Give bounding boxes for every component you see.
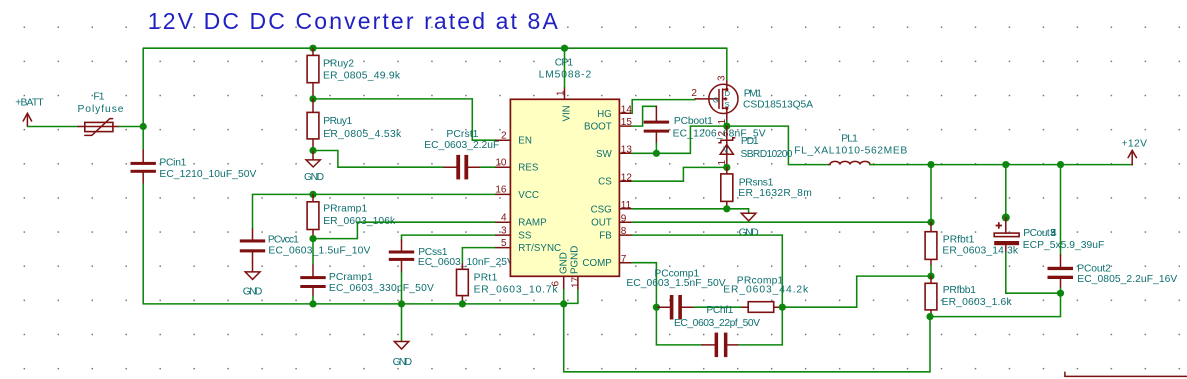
junction PCout5 pins [1002, 214, 1010, 222]
svg-text:ER_0603_1.6k: ER_0603_1.6k [942, 297, 1013, 308]
svg-text:+BATT: +BATT [15, 98, 44, 109]
svg-text:8: 8 [621, 226, 627, 237]
wire top rail [143, 47, 727, 49]
ground bottom center [393, 304, 413, 368]
capacitor PCvcc1 [240, 194, 371, 263]
svg-text:VIN: VIN [561, 105, 572, 121]
pin 5 RT/SYNC [496, 238, 561, 254]
wire SS net [402, 234, 496, 236]
svg-text:PCvcc1: PCvcc1 [268, 234, 299, 245]
svg-text:3: 3 [717, 75, 728, 81]
junction PRt1 bottom [459, 300, 466, 307]
svg-text:4: 4 [1051, 228, 1057, 239]
svg-text:4: 4 [501, 213, 507, 224]
wire output rail [870, 164, 1132, 166]
svg-text:3: 3 [501, 225, 507, 236]
svg-text:10: 10 [495, 158, 507, 169]
wire PCrst1 to RES pin [481, 166, 496, 168]
svg-text:PCramp1: PCramp1 [329, 272, 373, 283]
diode PD1 [717, 126, 793, 167]
svg-text:CS: CS [598, 177, 612, 188]
svg-text:RT/SYNC: RT/SYNC [518, 243, 561, 254]
resistor PRt1 [457, 248, 559, 304]
svg-text:GND: GND [559, 252, 570, 274]
capacitor PCrst1 [424, 129, 499, 179]
svg-text:6: 6 [551, 281, 562, 287]
svg-text:FL_XAL1010-562MEB: FL_XAL1010-562MEB [794, 145, 907, 156]
pin 16 VCC [495, 185, 539, 201]
svg-text:PCout2: PCout2 [1077, 263, 1111, 274]
pin 13 SW [596, 144, 632, 159]
junction PCramp1 bottom [309, 300, 316, 307]
svg-text:Polyfuse: Polyfuse [78, 104, 124, 115]
svg-text:GND: GND [739, 228, 759, 239]
svg-text:EC_0603_1.5uF_10V: EC_0603_1.5uF_10V [268, 246, 370, 257]
wire FB tap to divider [782, 276, 931, 307]
svg-text:EC_0603_2.2uF: EC_0603_2.2uF [424, 140, 499, 151]
resistor PRsns1 [721, 167, 812, 208]
svg-text:RAMP: RAMP [518, 218, 547, 229]
svg-text:2: 2 [691, 88, 697, 99]
svg-text:1: 1 [556, 90, 567, 96]
svg-text:VCC: VCC [518, 190, 539, 201]
junction FB divider mid [927, 273, 934, 280]
junction caps return [1057, 290, 1064, 297]
ground at sense [739, 213, 759, 238]
IC CP1 LM5088-2 [510, 57, 619, 276]
wire FB net [632, 235, 782, 307]
junction SW node [723, 123, 730, 130]
wire RT net [462, 247, 495, 249]
resistor PRfbt1 [925, 222, 1019, 276]
capacitor PCramp1 [300, 239, 434, 304]
wire SW to inductor [727, 126, 829, 165]
svg-text:COMP: COMP [582, 258, 612, 269]
svg-text:SBRD10200: SBRD10200 [741, 149, 793, 160]
capacitor PCcomp1 [626, 269, 725, 320]
capacitor PCin1 [131, 150, 257, 184]
capacitor PCss1 [389, 235, 514, 304]
wire bottom gnd rail [564, 317, 930, 372]
wire input column down to capacitor [142, 127, 144, 151]
svg-text:G: G [713, 95, 719, 104]
svg-text:PCout: PCout [1023, 228, 1050, 239]
svg-text:EN: EN [518, 136, 532, 147]
svg-text:EC_0805_2.2uF_16V: EC_0805_2.2uF_16V [1077, 274, 1177, 285]
junction SW at PCboot1 [653, 150, 660, 157]
inductor PL1 [794, 133, 907, 164]
wire fuse to input node [119, 126, 143, 128]
sheet frame corner [1065, 372, 1187, 377]
pin 2 EN [496, 131, 532, 147]
wire source to SW node [726, 121, 728, 126]
svg-text:PRramp1: PRramp1 [323, 204, 367, 215]
svg-text:12V DC DC Converter rated at 8: 12V DC DC Converter rated at 8A [148, 8, 559, 34]
junction diode anode sense top [723, 164, 730, 171]
wire COMP net [632, 263, 656, 308]
junction comp node left [653, 304, 660, 311]
svg-text:GND: GND [243, 286, 262, 297]
svg-text:EC_0603_10nF_25V: EC_0603_10nF_25V [418, 257, 514, 268]
svg-text:PCin1: PCin1 [159, 157, 186, 168]
svg-text:EC_0603_22pf_50V: EC_0603_22pf_50V [674, 318, 760, 329]
transistor PM1 [691, 75, 813, 125]
svg-text:EC_0603_330pF_50V: EC_0603_330pF_50V [329, 283, 434, 294]
pin 4 RAMP [496, 213, 547, 229]
title text [148, 8, 559, 34]
junction divider mid [309, 95, 316, 102]
capacitor PCboot1 [644, 106, 766, 153]
svg-text:PGND: PGND [570, 246, 581, 274]
svg-text:14: 14 [621, 104, 633, 115]
pin 15 BOOT [584, 117, 632, 132]
wire +BATT to fuse [27, 126, 78, 128]
wire PCout5 column top [1005, 165, 1007, 218]
wire OUT net [632, 221, 931, 223]
svg-text:PChf1: PChf1 [706, 305, 733, 316]
svg-text:9: 9 [621, 213, 627, 224]
pin 6 GND [551, 252, 570, 289]
svg-text:PRuy2: PRuy2 [323, 59, 354, 70]
svg-text:EC_0603_1.5nF_50V: EC_0603_1.5nF_50V [626, 278, 725, 289]
wire comp mid [694, 306, 742, 308]
wire top rail down to drain [726, 48, 728, 81]
wire EN net [313, 99, 496, 140]
wire input column up to top rail [142, 48, 144, 126]
svg-text:ER_0805_4.53k: ER_0805_4.53k [323, 129, 402, 140]
svg-text:PRuy1: PRuy1 [323, 116, 352, 127]
svg-text:S: S [725, 100, 730, 109]
svg-text:PL1: PL1 [841, 133, 858, 144]
svg-text:F1: F1 [93, 92, 104, 103]
svg-text:SS: SS [518, 231, 532, 242]
resistor PRcomp1 [723, 276, 809, 313]
capacitor PChf1 [656, 305, 782, 357]
wire out rail down to OUT pin wire [930, 165, 932, 223]
svg-text:PRt1: PRt1 [474, 273, 498, 284]
junction PRuy2 top [309, 45, 316, 52]
svg-text:GND: GND [304, 172, 324, 183]
fuse F1 Polyfuse [78, 92, 124, 136]
pin 11 CSG [591, 200, 633, 215]
svg-text:EC_1210_10uF_50V: EC_1210_10uF_50V [159, 169, 256, 180]
junction out rail at PCout5 [1002, 161, 1009, 168]
wire CSG net [632, 209, 748, 214]
junction PRuy1 bottom [309, 147, 316, 154]
svg-text:ER_0603_106k: ER_0603_106k [323, 216, 396, 227]
wire IC gnd pins to rail [564, 290, 578, 372]
junction out rail at PCout2 [1057, 161, 1064, 168]
wire VIN column [564, 48, 566, 87]
svg-text:CSD18513Q5A: CSD18513Q5A [743, 100, 813, 111]
svg-text:11: 11 [621, 200, 632, 211]
svg-text:5: 5 [501, 238, 507, 249]
svg-text:2: 2 [501, 131, 507, 142]
junction sense bottom [723, 205, 730, 212]
pin 8 FB [599, 226, 632, 241]
resistor PRramp1 [307, 194, 396, 238]
svg-text:ER_0603_10.7k: ER_0603_10.7k [474, 284, 559, 295]
svg-text:ER_1632R_8m: ER_1632R_8m [738, 188, 812, 199]
ground below PCvcc1 [243, 263, 262, 297]
wire RES net [313, 151, 444, 168]
wire PCin1 to gnd rail [143, 184, 564, 304]
svg-text:13: 13 [621, 144, 633, 155]
junction divider bottom [926, 313, 933, 320]
svg-text:2: 2 [717, 131, 728, 137]
wire VCC net [253, 193, 496, 195]
svg-text:RES: RES [518, 163, 539, 174]
junction OUT at divider top [927, 219, 934, 226]
svg-text:PD1: PD1 [741, 136, 759, 147]
svg-text:ER_0603_14.3k: ER_0603_14.3k [942, 245, 1018, 256]
svg-text:ER_0603_44.2k: ER_0603_44.2k [723, 285, 809, 296]
capacitor PCout2 [1048, 165, 1178, 294]
svg-text:HG: HG [597, 109, 612, 120]
svg-text:ECP_5x5.9_39uF: ECP_5x5.9_39uF [1023, 240, 1105, 251]
power flag +BATT [15, 98, 44, 127]
svg-text:7: 7 [621, 254, 627, 265]
junction out rail at divider [927, 161, 934, 168]
pin 14 HG [597, 104, 632, 119]
svg-text:15: 15 [621, 117, 633, 128]
resistor PRuy2 [307, 48, 401, 99]
svg-text:CSG: CSG [591, 204, 612, 215]
svg-text:PCrst1: PCrst1 [446, 129, 478, 140]
svg-text:SW: SW [596, 149, 613, 160]
pin 7 COMP [582, 254, 632, 269]
svg-text:17: 17 [571, 276, 582, 288]
svg-text:V: V [723, 146, 729, 155]
svg-text:FB: FB [599, 231, 612, 242]
pin 17 PGND [570, 246, 582, 290]
wire SW net [632, 126, 727, 153]
svg-text:OUT: OUT [591, 218, 612, 229]
capacitor PCout5 polarized [994, 218, 1104, 294]
junction VIN top rail [561, 45, 568, 52]
junction ramp node [309, 235, 316, 242]
resistor PRfbb1 [925, 276, 1012, 317]
resistor PRuy1 [307, 99, 402, 151]
pin 12 CS [598, 172, 632, 187]
svg-text:PRfbt1: PRfbt1 [943, 235, 975, 246]
svg-text:BOOT: BOOT [584, 122, 612, 133]
wire CS net [632, 167, 727, 181]
junction gnd rail at IC [560, 300, 567, 307]
svg-text:GND: GND [393, 357, 413, 368]
wire BOOT net [632, 106, 656, 126]
svg-text:D: D [725, 89, 731, 98]
junction PRramp1 top [309, 191, 316, 198]
svg-text:PRfbb1: PRfbb1 [943, 285, 976, 296]
wire HG net [632, 100, 695, 114]
junction comp node right FB [779, 304, 786, 311]
pin 9 OUT [591, 213, 632, 228]
svg-text:+12V: +12V [1122, 138, 1148, 149]
svg-text:16: 16 [495, 185, 507, 196]
power flag +12V [1122, 138, 1148, 164]
pin 10 RES [495, 158, 539, 174]
junction PCss1 bottom [398, 300, 405, 307]
junction input node [140, 123, 147, 130]
svg-text:PM1: PM1 [744, 88, 762, 99]
wire RAMP net [313, 222, 496, 238]
wire divider bottom to caps return [930, 293, 1061, 316]
svg-text:12: 12 [621, 172, 633, 183]
pin 3 SS [496, 225, 532, 241]
ground below PRuy1 [304, 151, 324, 183]
svg-text:ER_0805_49.9k: ER_0805_49.9k [323, 70, 401, 81]
pin 1 VIN [556, 88, 573, 122]
